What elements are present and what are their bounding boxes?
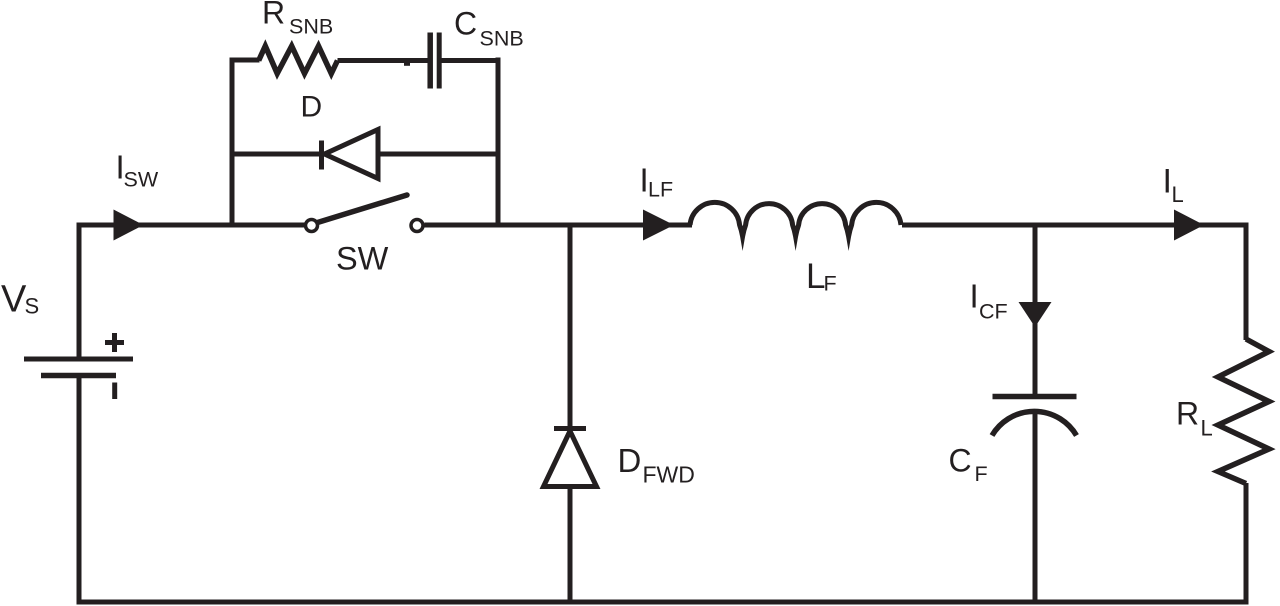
svg-text:C: C — [949, 443, 972, 479]
wire main top from source to switch — [77, 223, 305, 228]
label V_S — [1, 279, 39, 321]
diode D cathode bar — [319, 141, 324, 170]
svg-text:L: L — [1201, 416, 1213, 441]
svg-text:SNB: SNB — [480, 26, 524, 50]
label C_SNB — [454, 6, 524, 51]
wire bottom rail — [77, 600, 1249, 605]
wire diode D row left — [232, 152, 321, 157]
wire D_FWD branch lower — [568, 486, 573, 602]
label C_F — [949, 443, 988, 487]
battery Vs long plate — [24, 357, 133, 362]
svg-text:R: R — [262, 0, 285, 31]
current arrow I_SW — [114, 210, 144, 241]
current arrow I_LF — [643, 210, 674, 241]
switch SW right contact circle — [411, 220, 423, 232]
resistor R_L zigzag — [1218, 339, 1269, 484]
svg-text:LF: LF — [648, 178, 673, 202]
svg-text:C: C — [454, 6, 477, 42]
svg-text:SW: SW — [336, 241, 389, 277]
svg-text:D: D — [618, 442, 642, 479]
wire left rail bottom (Vs bottom to bottom rail) — [77, 377, 82, 602]
wire diode D row right — [377, 152, 498, 157]
wire inductor to right corner — [902, 223, 1246, 228]
wire snubber right vertical — [496, 58, 501, 228]
svg-text:F: F — [824, 272, 837, 296]
switch SW lever — [318, 195, 408, 223]
label R_SNB — [262, 0, 333, 39]
capacitor C_F flat plate — [993, 394, 1077, 400]
capacitor C_F curved plate — [992, 411, 1077, 435]
svg-text:D: D — [301, 91, 323, 124]
svg-text:F: F — [975, 462, 988, 486]
wire snubber top left segment — [230, 58, 260, 63]
switch SW left contact circle — [306, 220, 318, 232]
minus polarity mark left of C_SNB — [404, 63, 410, 66]
battery minus mark — [112, 383, 117, 400]
wire snubber between resistor and capacitor — [338, 58, 429, 63]
current arrow I_CF (down) — [1019, 302, 1052, 327]
battery Vs short plate — [41, 373, 116, 379]
svg-text:SNB: SNB — [289, 15, 333, 39]
svg-text:R: R — [1176, 396, 1199, 432]
inductor L_F coil — [690, 202, 901, 236]
diode D_FWD cathode bar — [554, 426, 586, 431]
resistor R_SNB zigzag — [259, 46, 338, 74]
svg-text:L: L — [1172, 182, 1184, 207]
label I_LF — [640, 162, 674, 202]
wire D_FWD branch upper — [568, 223, 573, 429]
wire snubber left vertical — [230, 58, 235, 228]
current arrow I_L — [1174, 210, 1204, 241]
battery plus sign — [105, 333, 124, 352]
svg-text:CF: CF — [979, 300, 1008, 324]
svg-text:S: S — [25, 294, 40, 319]
label I_SW — [116, 149, 159, 192]
wire right rail upper — [1244, 223, 1249, 341]
label D_FWD — [618, 442, 695, 488]
svg-text:SW: SW — [124, 168, 159, 192]
svg-text:FWD: FWD — [643, 462, 695, 488]
capacitor C_SNB left plate — [427, 33, 433, 89]
diode D triangle (points left) — [325, 130, 379, 179]
label I_L — [1163, 163, 1184, 208]
label I_CF — [970, 278, 1008, 324]
diode D_FWD triangle (points up) — [544, 431, 597, 487]
wire left rail top (Vs top to main node) — [77, 223, 82, 357]
capacitor C_SNB right plate — [437, 33, 442, 89]
wire right rail lower — [1244, 483, 1249, 602]
wire snubber right of capacitor — [441, 58, 501, 63]
svg-text:I: I — [970, 278, 979, 315]
label L_F — [806, 257, 837, 296]
label R_L — [1176, 396, 1213, 441]
wire C_F branch upper — [1033, 223, 1038, 395]
svg-text:V: V — [1, 279, 27, 321]
wire C_F branch lower — [1033, 413, 1038, 602]
wire switch right to inductor — [425, 223, 693, 228]
